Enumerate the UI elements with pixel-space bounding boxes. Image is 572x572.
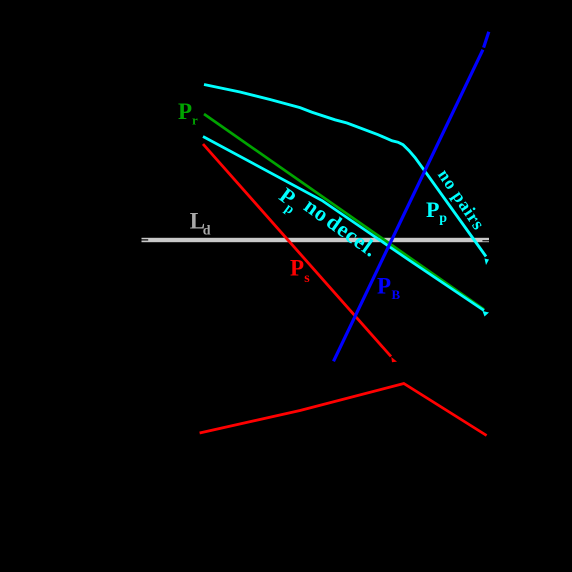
green line P_r bbox=[204, 114, 484, 310]
cyan line no-decel bbox=[203, 137, 484, 311]
red line arrow tip bbox=[391, 357, 397, 362]
svg-text:P: P bbox=[377, 274, 391, 299]
gray line L_d bbox=[142, 238, 490, 242]
svg-text:p: p bbox=[439, 211, 447, 226]
svg-text:P: P bbox=[178, 99, 192, 124]
red curve bottom bbox=[200, 384, 487, 436]
cyan curve arrow tip bbox=[485, 259, 490, 266]
svg-text:d: d bbox=[203, 223, 211, 238]
svg-text:s: s bbox=[304, 271, 310, 286]
cyan line arrow tip bbox=[483, 311, 490, 317]
svg-text:P: P bbox=[290, 256, 304, 281]
cyan curve no-pairs (top) bbox=[204, 85, 486, 257]
svg-text:r: r bbox=[192, 113, 198, 128]
red line P_s bbox=[203, 144, 391, 357]
svg-text:P: P bbox=[426, 197, 439, 222]
blue line P_B bbox=[484, 32, 489, 48]
svg-text:B: B bbox=[392, 287, 401, 302]
